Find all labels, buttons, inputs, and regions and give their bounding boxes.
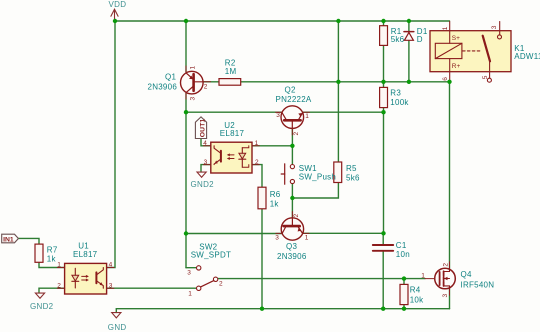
svg-text:1: 1 [190,66,197,70]
svg-text:SW_SPDT: SW_SPDT [191,251,231,260]
resistor R6 [258,187,281,209]
svg-text:2: 2 [219,281,223,288]
optocoupler U2 EL817 [203,121,259,173]
global label OUT1 [195,117,206,139]
optocoupler U1 EL817 [57,242,114,295]
wire to SW2 pin3 [186,267,197,269]
svg-text:IRF540N: IRF540N [461,281,495,290]
wire node to Q2 collector [186,111,282,113]
wire node drop x186 to SW2 [185,112,187,268]
svg-text:EL817: EL817 [220,129,245,138]
wire SW2 pin2 to Q4 gate rail [218,278,425,280]
wire SW1 top lead [291,146,293,165]
mosfet Q4 IRF540N [421,262,494,298]
svg-text:1M: 1M [225,67,237,76]
svg-text:Q3: Q3 [286,242,297,251]
wire Q4 source down [449,289,451,309]
svg-text:R7: R7 [47,246,58,255]
wire U2 pin4 to OUT1 [201,139,211,146]
svg-text:2: 2 [255,159,259,166]
svg-text:5k6: 5k6 [391,35,405,44]
relay K1 ADW11 [430,22,540,83]
svg-text:1k: 1k [47,255,57,264]
switch SW2 SPDT [187,243,231,298]
svg-text:2N3906: 2N3906 [148,83,178,92]
resistor R1 [380,26,405,46]
svg-text:IN1: IN1 [3,236,14,243]
svg-text:C1: C1 [396,241,407,250]
svg-text:3: 3 [204,159,208,166]
svg-text:2N3906: 2N3906 [277,252,307,261]
power GND bottom [108,309,127,332]
power GND2 near U2 [191,172,215,189]
transistor Q1 [148,66,211,101]
wire R3 leads [383,82,385,112]
svg-text:SW_Push: SW_Push [299,172,336,181]
wire Q1 collector drop from top rail [185,21,187,72]
svg-text:3: 3 [109,282,113,289]
svg-text:3: 3 [491,25,498,29]
svg-text:R+: R+ [452,63,461,70]
wire vertical from top rail to R5 [337,21,339,162]
wire Q2 pin2 down to SW1 node [291,128,293,145]
svg-text:R5: R5 [346,164,357,173]
capacitor C1 [373,241,410,259]
svg-text:3: 3 [190,97,197,101]
wire R6 down to GND rail [261,209,263,309]
resistor R3 [380,87,410,107]
wire relay pin6 down to Q4 drain [449,82,451,269]
svg-text:100k: 100k [390,98,409,107]
power VDD [109,0,127,21]
wire IN1 to R7 [18,238,39,244]
wire R1 leads [383,21,385,82]
svg-text:GND2: GND2 [30,302,54,311]
svg-text:R3: R3 [390,89,401,98]
wire U2 pin3 to GND2 [201,165,211,172]
transistor Q3 [275,212,309,262]
wire D1 leads [408,21,410,82]
svg-text:ADW11: ADW11 [514,52,540,61]
svg-text:2: 2 [293,132,300,136]
wire U2 pin1 to SW1 node [252,145,292,147]
resistor R4 [400,284,424,304]
svg-text:S+: S+ [452,35,460,42]
svg-text:1: 1 [57,262,61,269]
svg-text:10k: 10k [410,296,424,305]
svg-text:PN2222A: PN2222A [276,95,312,104]
wire node R3 down to C1 node [383,112,385,233]
resistor R7 [35,244,58,263]
resistor R5 [334,162,360,183]
svg-text:VDD: VDD [109,0,127,9]
wire Q3 base up to node [291,198,293,218]
svg-text:1: 1 [442,26,449,30]
svg-text:1: 1 [305,113,309,120]
wire U2 pin2 to R6 [252,165,262,188]
svg-text:GND2: GND2 [191,180,215,189]
svg-text:Q1: Q1 [165,73,176,82]
wire Q1 base to R2 [203,81,219,83]
svg-text:10n: 10n [396,250,410,259]
svg-text:3: 3 [442,294,449,298]
wire GND bottom rail [116,308,449,310]
wire C1 leads [382,233,384,308]
wire left VDD rail [107,21,115,268]
wire Q2 emitter to R3 node [303,111,384,113]
svg-text:2: 2 [293,214,300,218]
svg-text:2: 2 [443,263,450,267]
wire R4 leads [403,279,405,309]
hierarchical label IN1 [2,234,19,243]
svg-text:D: D [417,35,423,44]
svg-text:1: 1 [188,290,192,297]
svg-text:1k: 1k [270,200,280,209]
diode D1 [404,27,428,44]
wire R5 bottom bend to SW1 node [292,183,338,199]
wire Q3 emitter to C1 node [303,232,384,234]
svg-text:3: 3 [276,112,280,119]
svg-text:4: 4 [109,262,113,269]
svg-text:Q4: Q4 [461,270,472,279]
wire U1 pin3 to SW2 pin1 [107,287,197,289]
svg-text:1: 1 [421,272,425,279]
svg-text:Q2: Q2 [285,86,296,95]
transistor Q2 [276,86,312,136]
wire top rail VDD [115,20,450,22]
wire R7 bottom to U1 pin1 [39,262,65,267]
svg-text:EL817: EL817 [73,250,98,259]
svg-text:3: 3 [187,270,191,277]
wire node to Q3 collector [186,233,282,235]
svg-text:R4: R4 [410,286,421,295]
svg-text:5: 5 [482,75,489,79]
svg-text:R6: R6 [270,190,281,199]
wire R2 to relay coil rail [241,81,450,83]
power GND2 near U1 [30,293,54,311]
wire Q1 emitter to node [185,93,187,112]
switch SW1 [281,164,336,184]
resistor R2 [219,59,241,86]
wire U1 pin2 to GND2 [39,288,65,293]
svg-text:5k6: 5k6 [346,174,360,183]
svg-text:2: 2 [204,84,208,91]
svg-text:1: 1 [305,235,309,242]
svg-text:3: 3 [275,235,279,242]
svg-text:1: 1 [255,140,259,147]
wire SW1 bottom lead [291,184,293,198]
svg-text:GND: GND [108,323,127,332]
svg-text:2: 2 [57,282,61,289]
svg-text:4: 4 [203,140,207,147]
svg-text:OUT1: OUT1 [199,119,206,138]
